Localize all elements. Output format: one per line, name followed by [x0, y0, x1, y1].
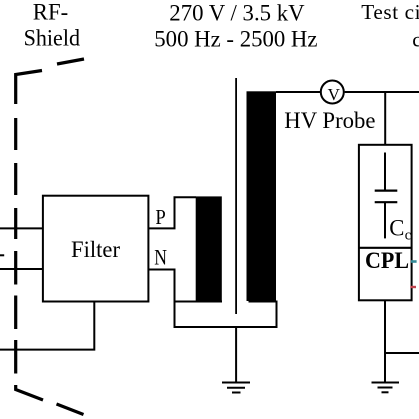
- svg-text:CPL: CPL: [365, 248, 409, 273]
- svg-text:c: c: [405, 228, 411, 244]
- svg-text:C: C: [389, 216, 404, 241]
- svg-text:270 V / 3.5 kV: 270 V / 3.5 kV: [169, 1, 305, 27]
- svg-text:P: P: [155, 205, 165, 229]
- svg-text:500 Hz - 2500 Hz: 500 Hz - 2500 Hz: [154, 26, 317, 52]
- svg-text:Shield: Shield: [24, 26, 81, 52]
- svg-text:V: V: [328, 85, 341, 104]
- svg-text:ch: ch: [412, 27, 419, 51]
- svg-text:Filter: Filter: [71, 237, 120, 263]
- svg-text:RF-: RF-: [33, 0, 68, 26]
- svg-text:HV Probe: HV Probe: [284, 108, 375, 134]
- svg-text:Test cir: Test cir: [361, 0, 419, 24]
- svg-text:N: N: [154, 245, 167, 270]
